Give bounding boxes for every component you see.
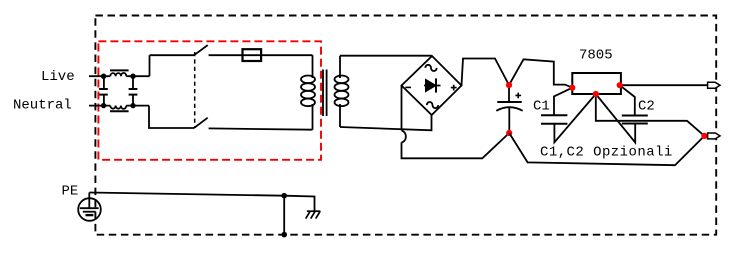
capacitor CX2 (right X-cap) [129,76,138,105]
node cap negative [506,130,512,136]
bridge BR1 plus mark [451,85,457,91]
node regulator gnd [593,91,599,97]
bridge BR1 diode symbol [424,78,441,92]
node cap positive [506,82,512,88]
wire secondary top to bridge [340,55,432,57]
bridge rectifier BR1 body [402,56,462,115]
transformer T1 secondary lead bottom [339,104,341,127]
capacitor C1 plates [541,115,567,124]
wire switch to fuse to transformer [209,54,313,56]
wire secondary bottom to bridge [340,115,432,130]
capacitor CX1 (left X-cap) [99,76,108,105]
transformer T1 secondary lead top [339,56,341,78]
svg-text:Live: Live [41,69,75,85]
wire Live riser to top rail [149,55,151,76]
node regulator input [569,85,575,91]
capacitor C1 bottom lead to gnd node [554,94,595,142]
node dots filter [101,74,136,109]
connector output + [708,82,720,88]
svg-text:C1: C1 [533,99,550,115]
wire bottom rail to transformer [209,128,313,129]
node regulator output [617,82,623,88]
capacitor C2 plates [622,116,648,124]
capacitor C1 leads [554,88,572,116]
earth electrode symbol [78,193,101,221]
wire Neutral input [89,105,110,107]
bridge BR1 minus mark [405,86,411,88]
transformer T1 primary lead top [312,55,314,78]
transformer T1 primary winding [301,76,315,107]
transformer T1 core [323,70,327,117]
svg-text:C1,C2 Opzionali: C1,C2 Opzionali [540,145,673,161]
chassis ground symbol [306,211,321,218]
node PE enclosure bond [281,232,287,238]
capacitor C3 plus mark [515,93,521,99]
fuse F1 [243,49,262,61]
capacitor C2 leads [620,85,635,115]
wire Neutral drop [149,106,194,128]
node output return [701,133,707,139]
svg-text:Neutral: Neutral [13,98,72,114]
wire bridge - to negative node (with hop) [402,86,510,159]
capacitor C3 smoothing (polarized) [496,85,522,133]
wire regulator gnd rail [596,94,705,136]
choke L1 winding A (Live, 3 bumps + core line) [110,70,150,76]
node PE junction [281,193,287,199]
wire bottom return [509,133,704,165]
wire regulator output [620,84,708,86]
svg-text:PE: PE [62,184,79,200]
wire cap node to regulator input [509,59,572,87]
switch SW1 pole A blade [194,45,208,55]
switch SW1 mechanical link (dashed) [194,52,196,127]
EMI filter stage box (red dashed) [98,41,321,160]
switch SW1 pole B blade [194,118,208,128]
bridge BR1 ac mark top [425,65,436,71]
wire PE to enclosure [283,196,285,235]
connector output - [708,133,720,139]
svg-text:C2: C2 [638,99,655,115]
regulator U1 body [572,73,621,94]
wire top rail to switch [150,54,195,56]
enclosure border (black dashed) [95,16,716,235]
svg-text:7805: 7805 [579,48,613,64]
wire Live input [89,75,110,77]
bridge BR1 ac mark bottom [427,102,438,108]
transformer T1 primary lead bottom [312,104,314,130]
capacitor C2 bottom lead to gnd node [596,94,635,143]
wire PE rail [89,193,314,212]
transformer T1 secondary winding [335,76,349,107]
choke L1 winding B (Neutral, 3 bumps + core line) [110,106,149,112]
wire bridge + to cap node [462,59,510,86]
